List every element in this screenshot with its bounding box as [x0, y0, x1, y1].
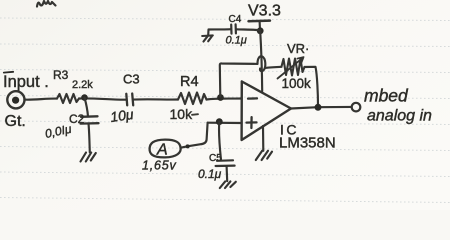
svg-text:Input .: Input .: [3, 73, 49, 91]
svg-text:C2: C2: [69, 112, 85, 126]
svg-text:2.2k: 2.2k: [72, 79, 93, 91]
svg-text:C5: C5: [209, 153, 222, 164]
svg-text:Gt.: Gt.: [5, 113, 26, 130]
svg-text:mbed: mbed: [364, 86, 409, 106]
svg-text:V3.3: V3.3: [248, 3, 281, 20]
svg-text:R3: R3: [53, 68, 69, 82]
svg-text:10μ: 10μ: [109, 106, 135, 125]
svg-text:C4: C4: [229, 14, 242, 25]
svg-text:R4: R4: [180, 74, 199, 90]
svg-text:analog in: analog in: [367, 108, 432, 125]
svg-text:A: A: [156, 142, 168, 159]
svg-text:0.1μ: 0.1μ: [198, 167, 222, 181]
svg-text:1,65v: 1,65v: [142, 159, 177, 173]
svg-text:C3: C3: [123, 72, 140, 87]
svg-text:100k: 100k: [282, 76, 312, 91]
svg-text:0.1μ: 0.1μ: [226, 35, 247, 47]
svg-text:10k: 10k: [170, 106, 194, 122]
svg-text:VR·: VR·: [287, 41, 309, 56]
svg-text:LM358N: LM358N: [279, 135, 336, 152]
